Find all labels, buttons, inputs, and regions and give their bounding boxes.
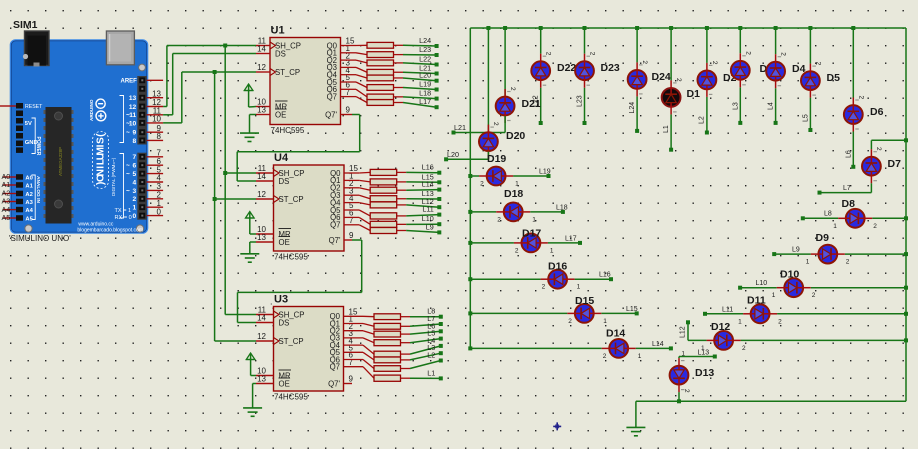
wire terminal to D10	[740, 287, 777, 289]
LED D15	[567, 304, 601, 323]
svg-text:L24: L24	[629, 102, 636, 114]
wire pin12 to U1 SH_CP	[163, 46, 256, 107]
wire right rail	[905, 28, 907, 401]
wire terminal to D9	[774, 253, 811, 255]
wire bottom rail	[636, 400, 906, 402]
svg-text:~: ~	[126, 130, 130, 137]
junction left rail D15	[468, 311, 472, 315]
wire rail drop to D22	[540, 28, 542, 54]
wire L17 net	[403, 103, 437, 108]
svg-text:14: 14	[257, 314, 266, 323]
wire L24 net	[403, 44, 437, 47]
svg-text:2: 2	[846, 259, 850, 266]
resistor R U3 output L3	[344, 352, 411, 363]
wire L23 net	[403, 54, 437, 56]
svg-text:D19: D19	[487, 153, 506, 165]
junction top rail D6	[851, 26, 855, 30]
LED D14	[602, 339, 636, 358]
wire rail drop to D21	[504, 28, 506, 96]
svg-text:Q7': Q7'	[329, 236, 341, 245]
resistor R U4 output L13	[344, 195, 406, 202]
svg-text:RESET: RESET	[25, 104, 43, 110]
resistor R U4 output L14	[344, 187, 406, 193]
node L3 terminal	[738, 121, 742, 125]
svg-text:D15: D15	[575, 295, 594, 307]
U3 left pin numbers	[257, 306, 266, 384]
wire D7 bottom to L7 terminal	[820, 183, 872, 192]
svg-text:11: 11	[129, 112, 136, 119]
resistor R U3 output L8	[344, 314, 411, 320]
wire D1 to terminal	[670, 114, 672, 149]
op-amp box U4 74HC595	[274, 165, 345, 251]
svg-text:2: 2	[641, 60, 648, 64]
junction bottom rail D13	[677, 399, 681, 403]
wire L3 net	[410, 353, 441, 360]
svg-text:DS: DS	[279, 318, 290, 327]
junction SH_CP bus	[223, 44, 227, 48]
svg-text:D11: D11	[747, 295, 766, 307]
svg-text:D24: D24	[652, 71, 671, 83]
pin 11 stub	[147, 114, 163, 116]
svg-text:O: O	[96, 174, 107, 182]
svg-text:L12: L12	[680, 326, 687, 338]
wire L8 net	[410, 316, 441, 318]
svg-text:1: 1	[550, 247, 554, 254]
node L15 terminal	[635, 311, 639, 315]
pin 5 stub	[147, 173, 163, 175]
board bottom silk text	[77, 222, 143, 234]
svg-text:3: 3	[133, 188, 137, 195]
wire D10 to right rail	[811, 287, 906, 289]
svg-text:D10: D10	[780, 269, 799, 281]
svg-text:L11: L11	[422, 205, 433, 214]
resistor R U3 output L2	[344, 360, 411, 372]
junction top rail D23	[583, 26, 587, 30]
USB connector	[106, 31, 134, 65]
node L5 terminal	[439, 337, 443, 341]
resistor R U4 output L9	[344, 225, 406, 234]
svg-text:2: 2	[589, 52, 596, 56]
junction top rail D24	[635, 26, 639, 30]
pin AREF stub	[147, 79, 163, 81]
resistor R U4 output L11	[344, 210, 406, 219]
wire L22 net	[403, 63, 437, 65]
svg-text:D13: D13	[695, 367, 714, 379]
wire D20 bottom to L20 net	[446, 152, 488, 160]
node L15 terminal	[437, 180, 441, 184]
board white silk texts right side	[111, 96, 132, 221]
wire D24 to terminal	[636, 96, 638, 130]
node L19 terminal	[435, 88, 439, 92]
svg-text:2: 2	[814, 62, 821, 66]
U3 pin names	[274, 310, 341, 388]
wire D14 to terminal	[636, 347, 671, 349]
svg-text:13: 13	[152, 89, 161, 98]
wire L5 net	[410, 339, 441, 343]
node L8 terminal	[439, 315, 443, 319]
svg-text:1: 1	[532, 216, 536, 223]
wire D13 top to L13 terminal	[679, 357, 715, 359]
op-amp box U3 74HC595	[274, 307, 344, 392]
svg-text:1: 1	[772, 292, 776, 299]
svg-text:L13: L13	[698, 350, 710, 357]
svg-text:D17: D17	[522, 228, 541, 240]
svg-text:12: 12	[257, 332, 266, 341]
wire ST_CP bus riser	[215, 72, 256, 341]
node L19 terminal	[547, 174, 551, 178]
svg-text:2: 2	[603, 353, 607, 360]
wire D2 to terminal	[706, 97, 708, 133]
junction top rail D1	[669, 26, 673, 30]
pin 4 stub	[147, 181, 163, 183]
svg-text:D7: D7	[888, 158, 902, 170]
svg-text:L: L	[96, 159, 107, 165]
svg-text:L3: L3	[733, 102, 740, 110]
wire left rail	[469, 28, 471, 348]
pin 10 stub	[147, 122, 163, 124]
svg-text:9: 9	[346, 106, 351, 115]
svg-text:DIGITAL (PWM=~): DIGITAL (PWM=~)	[111, 157, 116, 196]
wire L12 terminal to D12	[688, 322, 707, 340]
svg-text:OE: OE	[279, 379, 290, 388]
power symbol VCC at U3 MR	[246, 353, 256, 376]
node L22 terminal	[539, 121, 543, 125]
svg-text:D6: D6	[870, 106, 884, 118]
svg-text:AREF: AREF	[121, 79, 138, 85]
svg-text:L20: L20	[419, 71, 431, 80]
svg-text:ANALOG IN: ANALOG IN	[35, 176, 41, 203]
svg-text:.: .	[270, 297, 273, 307]
node L13 terminal	[713, 355, 717, 359]
wire left rail to D15	[470, 312, 567, 314]
node L23 terminal	[583, 121, 587, 125]
LED D2	[698, 63, 717, 97]
node L2 terminal	[439, 359, 443, 363]
svg-text:4: 4	[133, 179, 137, 186]
wire D23 to terminal	[584, 88, 586, 123]
pin 6 stub	[147, 164, 163, 166]
svg-text:1: 1	[133, 205, 137, 212]
node L18 terminal	[435, 97, 439, 101]
svg-text:2: 2	[542, 284, 546, 291]
junction right rail D8	[904, 216, 908, 220]
LED D3	[731, 53, 750, 87]
svg-text:Q7: Q7	[330, 363, 340, 372]
LED D23	[575, 54, 594, 88]
node L24 terminal	[635, 129, 639, 133]
svg-text:2: 2	[509, 87, 516, 91]
svg-text:0: 0	[133, 213, 137, 220]
wire D9 to right rail	[845, 253, 906, 255]
ground symbol heart bottom	[626, 401, 645, 436]
resistor R U4 output L10	[344, 217, 406, 227]
wire L9 net	[406, 231, 439, 233]
node L5 terminal	[808, 128, 812, 132]
junction right rail D11	[904, 312, 908, 316]
resistor R U1 output L21	[341, 67, 404, 75]
svg-text:7: 7	[133, 154, 137, 161]
Arduino SIMULINO UNO board SIM1	[11, 40, 148, 233]
LED D19	[479, 167, 513, 186]
svg-text:OE: OE	[275, 110, 286, 119]
svg-text:D14: D14	[606, 328, 625, 340]
svg-text:S: S	[96, 137, 107, 144]
wire L10 net	[406, 223, 439, 225]
node L7 terminal	[818, 191, 822, 195]
wire D4 to terminal	[775, 88, 777, 123]
svg-text:13: 13	[257, 106, 266, 115]
svg-text:2: 2	[778, 318, 782, 325]
wire L19 net	[403, 88, 437, 90]
wire D12 to right rail	[741, 339, 906, 341]
svg-text:L4: L4	[768, 102, 775, 110]
node L18 terminal	[561, 210, 565, 214]
junction top rail D4	[774, 26, 778, 30]
junction right rail D7	[904, 138, 908, 142]
svg-text:2: 2	[780, 52, 787, 56]
svg-text:D8: D8	[842, 198, 856, 210]
resistor R U1 output L19	[341, 82, 404, 90]
wire left rail to D19	[470, 175, 479, 177]
svg-text:A4: A4	[25, 208, 33, 214]
junction left rail D16	[468, 277, 472, 281]
U3 left pin stubs	[256, 315, 274, 384]
svg-text:I: I	[96, 144, 107, 147]
wire terminal to D11	[705, 313, 743, 315]
svg-text:L20: L20	[447, 150, 459, 159]
node L6 terminal	[439, 329, 443, 333]
junction ST_CP at U4	[213, 197, 217, 201]
LED D20	[479, 125, 498, 159]
svg-text:2: 2	[742, 345, 746, 352]
svg-text:1: 1	[833, 223, 837, 230]
wire L12 net	[406, 205, 439, 207]
resistor R U1 output L17	[341, 97, 404, 106]
U1 pin names	[270, 41, 338, 119]
node L11 terminal	[437, 213, 441, 217]
svg-text:DS: DS	[279, 177, 290, 186]
pin labels D12	[701, 345, 746, 352]
svg-text:L16: L16	[599, 272, 611, 279]
wire rail drop to D5	[809, 28, 811, 64]
svg-text:SIM1: SIM1	[13, 19, 38, 31]
svg-text:D23: D23	[601, 62, 620, 74]
ground symbol at U1 OE	[240, 115, 259, 142]
svg-text:2: 2	[711, 61, 718, 65]
svg-text:A0: A0	[25, 175, 32, 181]
LED D9	[811, 245, 845, 264]
svg-text:U1: U1	[271, 25, 285, 37]
LED D22	[531, 54, 550, 88]
wire left rail to D17	[470, 242, 514, 244]
svg-text:OE: OE	[279, 238, 290, 247]
wire rail drop to D24	[636, 28, 638, 62]
wire L1 net	[410, 377, 441, 379]
svg-text:L14: L14	[422, 180, 434, 189]
pin 13 stub	[147, 97, 163, 99]
pin 1 stub	[147, 206, 163, 208]
wire rail drop to D2	[706, 28, 708, 63]
svg-text:D5: D5	[827, 72, 841, 84]
wire D21 bottom to L21 net	[454, 116, 506, 133]
svg-text:L5: L5	[803, 114, 810, 122]
wire L14 net	[406, 189, 439, 192]
resistor R U3 output L6	[344, 331, 411, 337]
svg-text:74HC595: 74HC595	[271, 126, 305, 135]
pin A3 stub and label	[2, 197, 17, 206]
wire pin11 to U1 DS	[163, 54, 256, 115]
svg-text:D18: D18	[504, 188, 523, 200]
wire top rail	[470, 27, 906, 29]
power symbol VCC at U1 MR	[244, 84, 256, 107]
wire D5 to terminal	[809, 98, 811, 130]
junction top rail D20	[486, 26, 490, 30]
resistor R U3 output L4	[344, 345, 411, 357]
node L21 terminal	[435, 72, 439, 76]
wire rail drop to D4	[775, 28, 777, 54]
svg-text:5V: 5V	[25, 121, 32, 127]
svg-text:D16: D16	[548, 261, 567, 273]
LED D8	[838, 209, 872, 228]
wire L18 net	[403, 97, 437, 99]
SIMULINO UNO caption	[9, 234, 71, 243]
LED D13	[670, 358, 689, 392]
pin labels D8	[833, 223, 877, 230]
node L4 terminal	[774, 121, 778, 125]
node L21 terminal	[452, 131, 456, 135]
svg-text:L21: L21	[454, 123, 466, 132]
wire pin10 to U1 ST_CP	[163, 72, 256, 123]
wire rail drop to D20	[487, 28, 489, 132]
svg-text:L19: L19	[419, 80, 431, 89]
wire SH_CP bus riser	[225, 46, 256, 315]
node L20 terminal	[435, 79, 439, 83]
pin A0 stub and label	[2, 172, 17, 181]
pin A4 stub and label	[2, 205, 17, 214]
pin labels D18	[497, 216, 536, 223]
wire left rail to D18	[470, 211, 496, 213]
node L7 terminal	[439, 322, 443, 326]
svg-text:74HC595: 74HC595	[274, 253, 308, 262]
resistor R U4 output L16	[344, 169, 406, 175]
svg-text:L11: L11	[722, 306, 733, 313]
svg-text:2: 2	[480, 181, 484, 188]
svg-text:14: 14	[257, 45, 266, 54]
node L1 terminal	[669, 148, 673, 152]
wire D3 to terminal	[739, 87, 741, 123]
node L13 terminal	[437, 197, 441, 201]
svg-text:1: 1	[515, 181, 519, 188]
junction top rail D2	[705, 26, 709, 30]
wire D7 top to right rail	[871, 140, 906, 149]
svg-text:Q7': Q7'	[325, 110, 337, 119]
svg-text:DS: DS	[275, 49, 286, 58]
LED D24	[628, 62, 647, 96]
pin labels D11	[738, 318, 782, 325]
power header 5V GND	[16, 111, 41, 156]
svg-text:Q7: Q7	[330, 221, 340, 230]
svg-text:2: 2	[683, 389, 690, 393]
wire D13 bottom to rail	[678, 392, 680, 401]
pin 2 stub	[147, 198, 163, 200]
node L14 terminal	[437, 188, 441, 192]
resistor R U3 output L7	[344, 323, 411, 329]
svg-text:~: ~	[126, 171, 130, 178]
wire D16 to terminal	[575, 278, 611, 280]
junction right rail D12	[904, 338, 908, 342]
power symbol VCC at U4 MR	[245, 212, 256, 235]
LED D1 red inactive	[670, 28, 672, 80]
U4 pin names	[274, 169, 342, 247]
svg-text:): )	[96, 182, 107, 185]
node L10 terminal	[437, 222, 441, 226]
pin 7 stub	[147, 156, 163, 158]
pin labels D17	[515, 247, 554, 254]
svg-text:9: 9	[133, 130, 137, 137]
node L8 terminal	[801, 216, 805, 220]
svg-text:1: 1	[603, 318, 607, 325]
ground symbol at U3 OE	[243, 384, 262, 417]
digital pin header 7-0	[137, 153, 146, 220]
svg-text:ST_CP: ST_CP	[275, 68, 300, 77]
pin labels D9	[806, 259, 850, 266]
wire D8 to right rail	[872, 217, 906, 219]
svg-text:Q7': Q7'	[328, 379, 340, 388]
svg-text:L19: L19	[539, 168, 551, 175]
svg-text:POWER: POWER	[35, 137, 41, 156]
svg-text:L1: L1	[663, 125, 670, 133]
pin labels D14	[603, 353, 642, 360]
junction top rail D3	[738, 26, 742, 30]
node L16 terminal	[437, 171, 441, 175]
svg-text:13: 13	[129, 95, 137, 102]
svg-text:8: 8	[133, 138, 137, 145]
svg-text:L23: L23	[577, 95, 584, 107]
svg-text:2: 2	[545, 52, 552, 56]
node L2 terminal	[705, 131, 709, 135]
resistor R U1 output L18	[341, 89, 404, 99]
svg-text:L17: L17	[565, 235, 577, 242]
wire L6 net	[410, 331, 441, 334]
svg-text:blogembarcado.blogspot.com: blogembarcado.blogspot.com	[77, 227, 143, 233]
wire L15 net	[406, 181, 439, 183]
wire rail drop to D23	[584, 28, 586, 54]
svg-text:D22: D22	[557, 62, 576, 74]
wire L13 net	[406, 198, 439, 200]
ATMEGA328 IC chip	[44, 107, 74, 224]
RESET pin and header	[0, 103, 43, 110]
wire rail drop to D6	[852, 28, 854, 98]
junction left rail D17	[468, 241, 472, 245]
diode D1	[662, 80, 681, 114]
resistor R U1 output L23	[341, 52, 404, 58]
svg-text:A2: A2	[25, 192, 32, 198]
node L17 terminal	[435, 105, 439, 109]
pin 12 stub	[147, 106, 163, 108]
svg-text:2: 2	[568, 318, 572, 325]
wire L16 net	[406, 171, 439, 173]
node L4 terminal	[439, 344, 443, 348]
wire U3 Q7S stub	[344, 383, 353, 385]
svg-text:A1: A1	[25, 183, 33, 189]
pin 9 stub	[147, 131, 163, 133]
U4 left pin numbers	[257, 164, 266, 242]
wire U1 Q7S to U4 DS cascade	[237, 115, 360, 182]
svg-text:6: 6	[133, 163, 137, 170]
junction top rail D5	[808, 26, 812, 30]
wire left rail to D14	[470, 347, 601, 349]
node L1 terminal	[439, 376, 443, 380]
